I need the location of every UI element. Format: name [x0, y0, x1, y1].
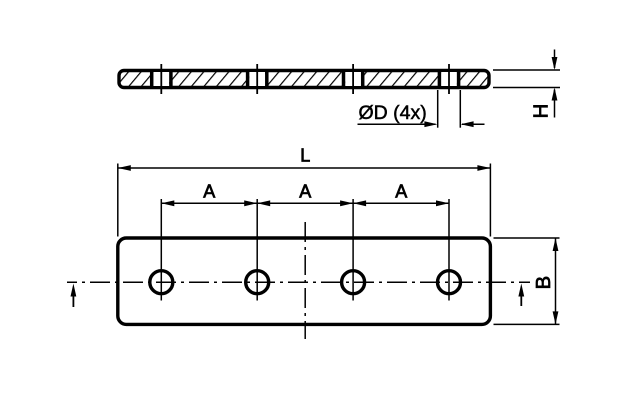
- dimension B line: [553, 238, 559, 324]
- vertical centre line: [304, 222, 306, 339]
- dimension H arrows: [552, 50, 558, 118]
- dimension L line: [118, 165, 491, 171]
- svg-text:ØD (4x): ØD (4x): [359, 102, 427, 124]
- section hole centerline ticks: [161, 64, 449, 94]
- dimension OD extension lines: [438, 90, 461, 128]
- dimension H extension lines: [493, 70, 560, 88]
- dimension L label: [300, 146, 310, 166]
- dimension B extension lines: [494, 238, 560, 324]
- svg-text:L: L: [300, 146, 310, 166]
- section view plate outline: [119, 71, 489, 88]
- hole centre extension lines (top view): [161, 199, 449, 301]
- dimension B label: [533, 276, 555, 290]
- hole H2 section cutout: [248, 71, 267, 88]
- hole H1 section cutout: [152, 71, 171, 88]
- dimension OD leader line right: [461, 121, 485, 127]
- horizontal centre line (section cut line): [67, 281, 530, 283]
- svg-text:A: A: [395, 181, 407, 201]
- hole H2 top view: [246, 271, 269, 294]
- hole H4 section cutout: [439, 71, 458, 88]
- section hatch: [119, 71, 489, 88]
- top view plate outline: [118, 238, 491, 324]
- dimension L extension lines: [118, 164, 491, 237]
- dimension A label 2: [299, 181, 311, 201]
- section direction arrow left: [71, 284, 77, 308]
- dimension OD leader line left: [358, 121, 438, 127]
- dimension A label 1: [203, 181, 215, 201]
- dimension A chain line: [161, 200, 449, 206]
- hole H3 top view: [342, 271, 365, 294]
- svg-text:H: H: [531, 104, 553, 119]
- svg-text:B: B: [533, 276, 555, 290]
- dimension A label 3: [395, 181, 407, 201]
- svg-text:A: A: [203, 181, 215, 201]
- hole H4 top view: [438, 271, 461, 294]
- svg-text:A: A: [299, 181, 311, 201]
- dimension H label: [531, 104, 553, 119]
- section direction arrow right: [518, 284, 524, 307]
- hole H1 top view: [150, 271, 173, 294]
- dimension OD label: [359, 102, 427, 124]
- hole H3 section cutout: [344, 71, 363, 88]
